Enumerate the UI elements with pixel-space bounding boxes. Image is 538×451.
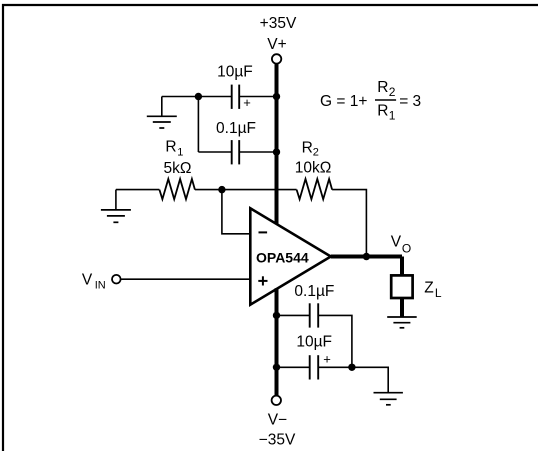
- wire bypass node to 10uF left plate: [162, 96, 232, 98]
- VIN terminal circle: [112, 275, 121, 284]
- svg-text:5kΩ: 5kΩ: [164, 160, 192, 177]
- svg-text:V: V: [82, 272, 93, 289]
- gain equation G = 1 + R2/R1 = 3: [320, 79, 421, 123]
- load ZL box: [391, 275, 412, 298]
- wire ground to R1: [116, 189, 159, 191]
- svg-text:1: 1: [389, 109, 396, 123]
- ground (ZL): [387, 317, 417, 328]
- wire R2 right to output branch: [332, 190, 366, 257]
- svg-text:G = 1+: G = 1+: [320, 93, 367, 110]
- svg-text:1: 1: [177, 147, 183, 159]
- wire V+ supply rail (thick): [275, 64, 279, 226]
- capacitor C1 10uF plates: [232, 85, 240, 109]
- wire output (thick): [331, 255, 402, 259]
- wire V- rail to 0.1uF left plate: [277, 314, 310, 316]
- resistor R1 zigzag: [159, 179, 195, 199]
- wire ZL to ground (thick): [400, 298, 404, 317]
- capacitor C3 0.1uF plates: [310, 303, 319, 327]
- svg-text:0.1µF: 0.1µF: [216, 120, 256, 137]
- output VO label: [391, 234, 411, 256]
- junction on V+ rail at 0.1uF bypass: [273, 148, 280, 155]
- load ZL label: [424, 280, 442, 300]
- V+ terminal circle: [272, 54, 281, 63]
- svg-text:10kΩ: 10kΩ: [295, 159, 332, 176]
- wire 10uF right plate to node: [318, 366, 352, 368]
- svg-text:Z: Z: [424, 280, 433, 297]
- op-amp inverting input minus symbol: [259, 231, 268, 233]
- wire bypass node to ground stub: [161, 97, 163, 117]
- op-amp non-inverting input plus symbol: [258, 276, 267, 285]
- wire node down to inverting input: [222, 190, 250, 234]
- wire R1 ground stub: [115, 190, 117, 210]
- svg-text:2: 2: [389, 85, 396, 99]
- wire output down to load (thick): [400, 257, 404, 276]
- ground (bottom bypass): [374, 393, 403, 405]
- svg-text:10µF: 10µF: [217, 63, 253, 80]
- capacitor C2 0.1uF plates: [232, 140, 240, 164]
- wire V- supply rail (thick): [275, 288, 279, 396]
- svg-text:−35V: −35V: [259, 431, 296, 448]
- svg-text:OPA544: OPA544: [256, 249, 309, 265]
- wire V- rail to 10uF left plate: [277, 366, 310, 368]
- svg-text:V−: V−: [268, 412, 287, 429]
- svg-text:+35V: +35V: [260, 15, 297, 32]
- svg-text:R: R: [302, 139, 313, 156]
- svg-text:R: R: [377, 79, 388, 96]
- svg-text:O: O: [402, 241, 411, 255]
- wire R1 to summing node and on to R2: [195, 189, 297, 191]
- junction output node: [363, 253, 370, 260]
- wire 10uF right plate to rail: [239, 96, 276, 98]
- svg-text:= 3: = 3: [399, 93, 421, 110]
- input VIN label: [82, 272, 106, 292]
- svg-text:R: R: [377, 102, 388, 119]
- resistor R2 zigzag: [297, 179, 333, 199]
- junction node R1/R2/inverting input: [218, 186, 225, 193]
- svg-text:IN: IN: [95, 279, 106, 291]
- junction on V+ rail at 10uF bypass: [273, 93, 280, 100]
- resistor R2 reference label: [302, 139, 319, 158]
- svg-text:R: R: [165, 139, 176, 156]
- wire 0.1uF right plate to rail: [239, 151, 276, 153]
- svg-text:+: +: [323, 351, 331, 366]
- wire node to 0.1uF left plate: [198, 151, 231, 153]
- svg-text:0.1µF: 0.1µF: [294, 283, 334, 300]
- V- terminal circle: [272, 396, 281, 405]
- resistor R1 reference label: [165, 139, 183, 159]
- op-amp U1 triangle: [250, 208, 330, 304]
- svg-text:+: +: [243, 95, 251, 110]
- wire VIN to non-inverting input: [121, 278, 251, 280]
- svg-text:L: L: [435, 286, 442, 300]
- svg-text:V: V: [391, 234, 402, 251]
- wire bypass node down to 0.1uF: [197, 97, 199, 153]
- svg-text:V+: V+: [267, 36, 286, 53]
- junction at bypass node: [195, 93, 202, 100]
- wire node to ground stub: [352, 367, 388, 392]
- gain equation fraction bar: [375, 99, 396, 101]
- wire 0.1uF right plate to corner and down: [318, 315, 352, 367]
- ground (bypass caps): [147, 116, 177, 128]
- capacitor C4 10uF plates: [310, 355, 319, 379]
- junction bottom bypass node: [348, 364, 355, 371]
- svg-text:2: 2: [313, 146, 319, 158]
- junction on V- rail at 0.1uF: [273, 312, 280, 319]
- svg-text:10µF: 10µF: [296, 333, 332, 350]
- junction on V- rail at 10uF: [273, 364, 280, 371]
- ground (R1): [101, 210, 131, 222]
